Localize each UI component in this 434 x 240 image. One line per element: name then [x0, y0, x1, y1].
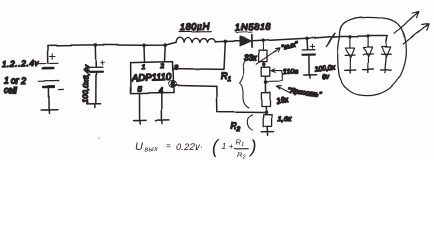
svg-text:1.2..2.4v: 1.2..2.4v: [2, 58, 40, 69]
wire pin3 to inductor-diode node: [173, 42, 225, 70]
LED D2: [345, 36, 356, 72]
LED enclosure ellipse: [338, 17, 407, 95]
wire 16k to 1.6k: [265, 106, 267, 114]
brace R1: [240, 59, 250, 108]
ground (pin5): [134, 120, 146, 124]
junction LED1: [349, 35, 352, 38]
capacitor C2 plates: [302, 50, 314, 55]
connector slash mark: [326, 33, 335, 46]
formula Uout: [135, 137, 257, 161]
LED bus wire: [350, 36, 387, 41]
capacitor C2 plus: [310, 44, 314, 48]
wire pin4 to ground: [160, 93, 162, 120]
svg-text:cell: cell: [4, 85, 18, 95]
capacitor C2 lead top: [306, 38, 309, 49]
junction C1 top: [94, 43, 98, 47]
capacitor C1 bottom lead: [95, 72, 97, 103]
svg-text:100,0x6,4v: 100,0x6,4v: [81, 65, 91, 104]
battery plus sign: [50, 54, 56, 59]
svg-text:ADP1110: ADP1110: [131, 72, 172, 84]
ground (battery): [41, 110, 58, 114]
junction LED2: [366, 34, 369, 37]
wire top rail: [48, 42, 176, 45]
svg-text:1 +: 1 +: [222, 141, 234, 151]
capacitor C1 plates: [90, 67, 103, 72]
trimmer 110 wiper: [266, 69, 282, 82]
wire inductor to diode: [215, 40, 240, 43]
wire 1.6k to ground: [266, 126, 268, 131]
svg-text:1,6к: 1,6к: [278, 114, 292, 123]
svg-text:U: U: [135, 141, 143, 153]
light arrow 2: [403, 24, 428, 44]
svg-text:33к: 33к: [244, 54, 258, 63]
wire pin1 to rail: [143, 45, 146, 62]
arrow yarkost: [276, 86, 291, 94]
wire pin5 to ground: [139, 94, 141, 121]
diode D1 1N5818: [240, 35, 252, 47]
junction below 110: [264, 80, 268, 84]
wire pin8 FB to divider tap: [174, 85, 265, 112]
wire diode to C2 node: [252, 38, 316, 41]
junction below 33k: [262, 63, 266, 67]
IC U1 ADP1110 body: [131, 62, 174, 94]
wire 110 to 16k: [264, 76, 266, 92]
battery bottom lead: [47, 88, 49, 110]
junction pin1 top: [142, 44, 146, 48]
svg-text:вых: вых: [145, 147, 159, 154]
svg-text:1: 1: [142, 65, 146, 72]
junction divider top: [261, 39, 265, 43]
svg-text:110a: 110a: [283, 69, 298, 76]
resistor 1.6k body: [263, 114, 271, 126]
battery minus sign: [59, 88, 64, 90]
brace R2: [247, 115, 252, 131]
LED D3: [363, 36, 374, 72]
battery B1 plates: [39, 63, 59, 87]
wire 33k to 110: [263, 62, 264, 67]
capacitor C1 plus: [100, 61, 104, 65]
ground (pin4): [156, 120, 169, 124]
svg-text:1N5818: 1N5818: [235, 21, 272, 33]
capacitor C2 bottom lead: [307, 55, 309, 75]
svg-text:5: 5: [138, 87, 142, 94]
trimmer 33k wiper arrow: [256, 48, 280, 64]
svg-text:180µH: 180µH: [179, 21, 210, 32]
junction pin2 top: [164, 43, 168, 47]
light arrow 1: [395, 12, 420, 34]
svg-text:): ): [249, 137, 257, 157]
trimmer R 110 body: [261, 67, 270, 76]
junction C2 top: [305, 37, 309, 41]
junction diode node: [224, 40, 228, 44]
svg-text:2: 2: [160, 64, 165, 71]
ground (C2): [303, 75, 316, 78]
LED D4: [380, 41, 391, 73]
formula fraction bar: [235, 147, 248, 149]
svg-text:16к: 16к: [276, 95, 289, 106]
capacitor C1 lead top: [94, 45, 97, 67]
inductor L1 180uH: [176, 31, 215, 42]
wire into LED ellipse: [316, 36, 351, 38]
svg-text:=: =: [166, 142, 171, 151]
trimmer R 33k body: [259, 50, 267, 61]
svg-text:1 or 2: 1 or 2: [4, 76, 27, 86]
pin 8 bubble: [168, 81, 176, 88]
wire divider drop: [262, 41, 264, 50]
paper speck: [98, 137, 100, 139]
battery B1 top lead: [47, 45, 49, 62]
junction FB tap: [264, 110, 268, 114]
svg-text:0.22v·: 0.22v·: [177, 142, 204, 152]
wire pin2 to rail: [164, 45, 167, 62]
ground (C1): [87, 103, 101, 107]
ground (divider): [261, 132, 273, 136]
resistor 16k body: [261, 92, 270, 106]
